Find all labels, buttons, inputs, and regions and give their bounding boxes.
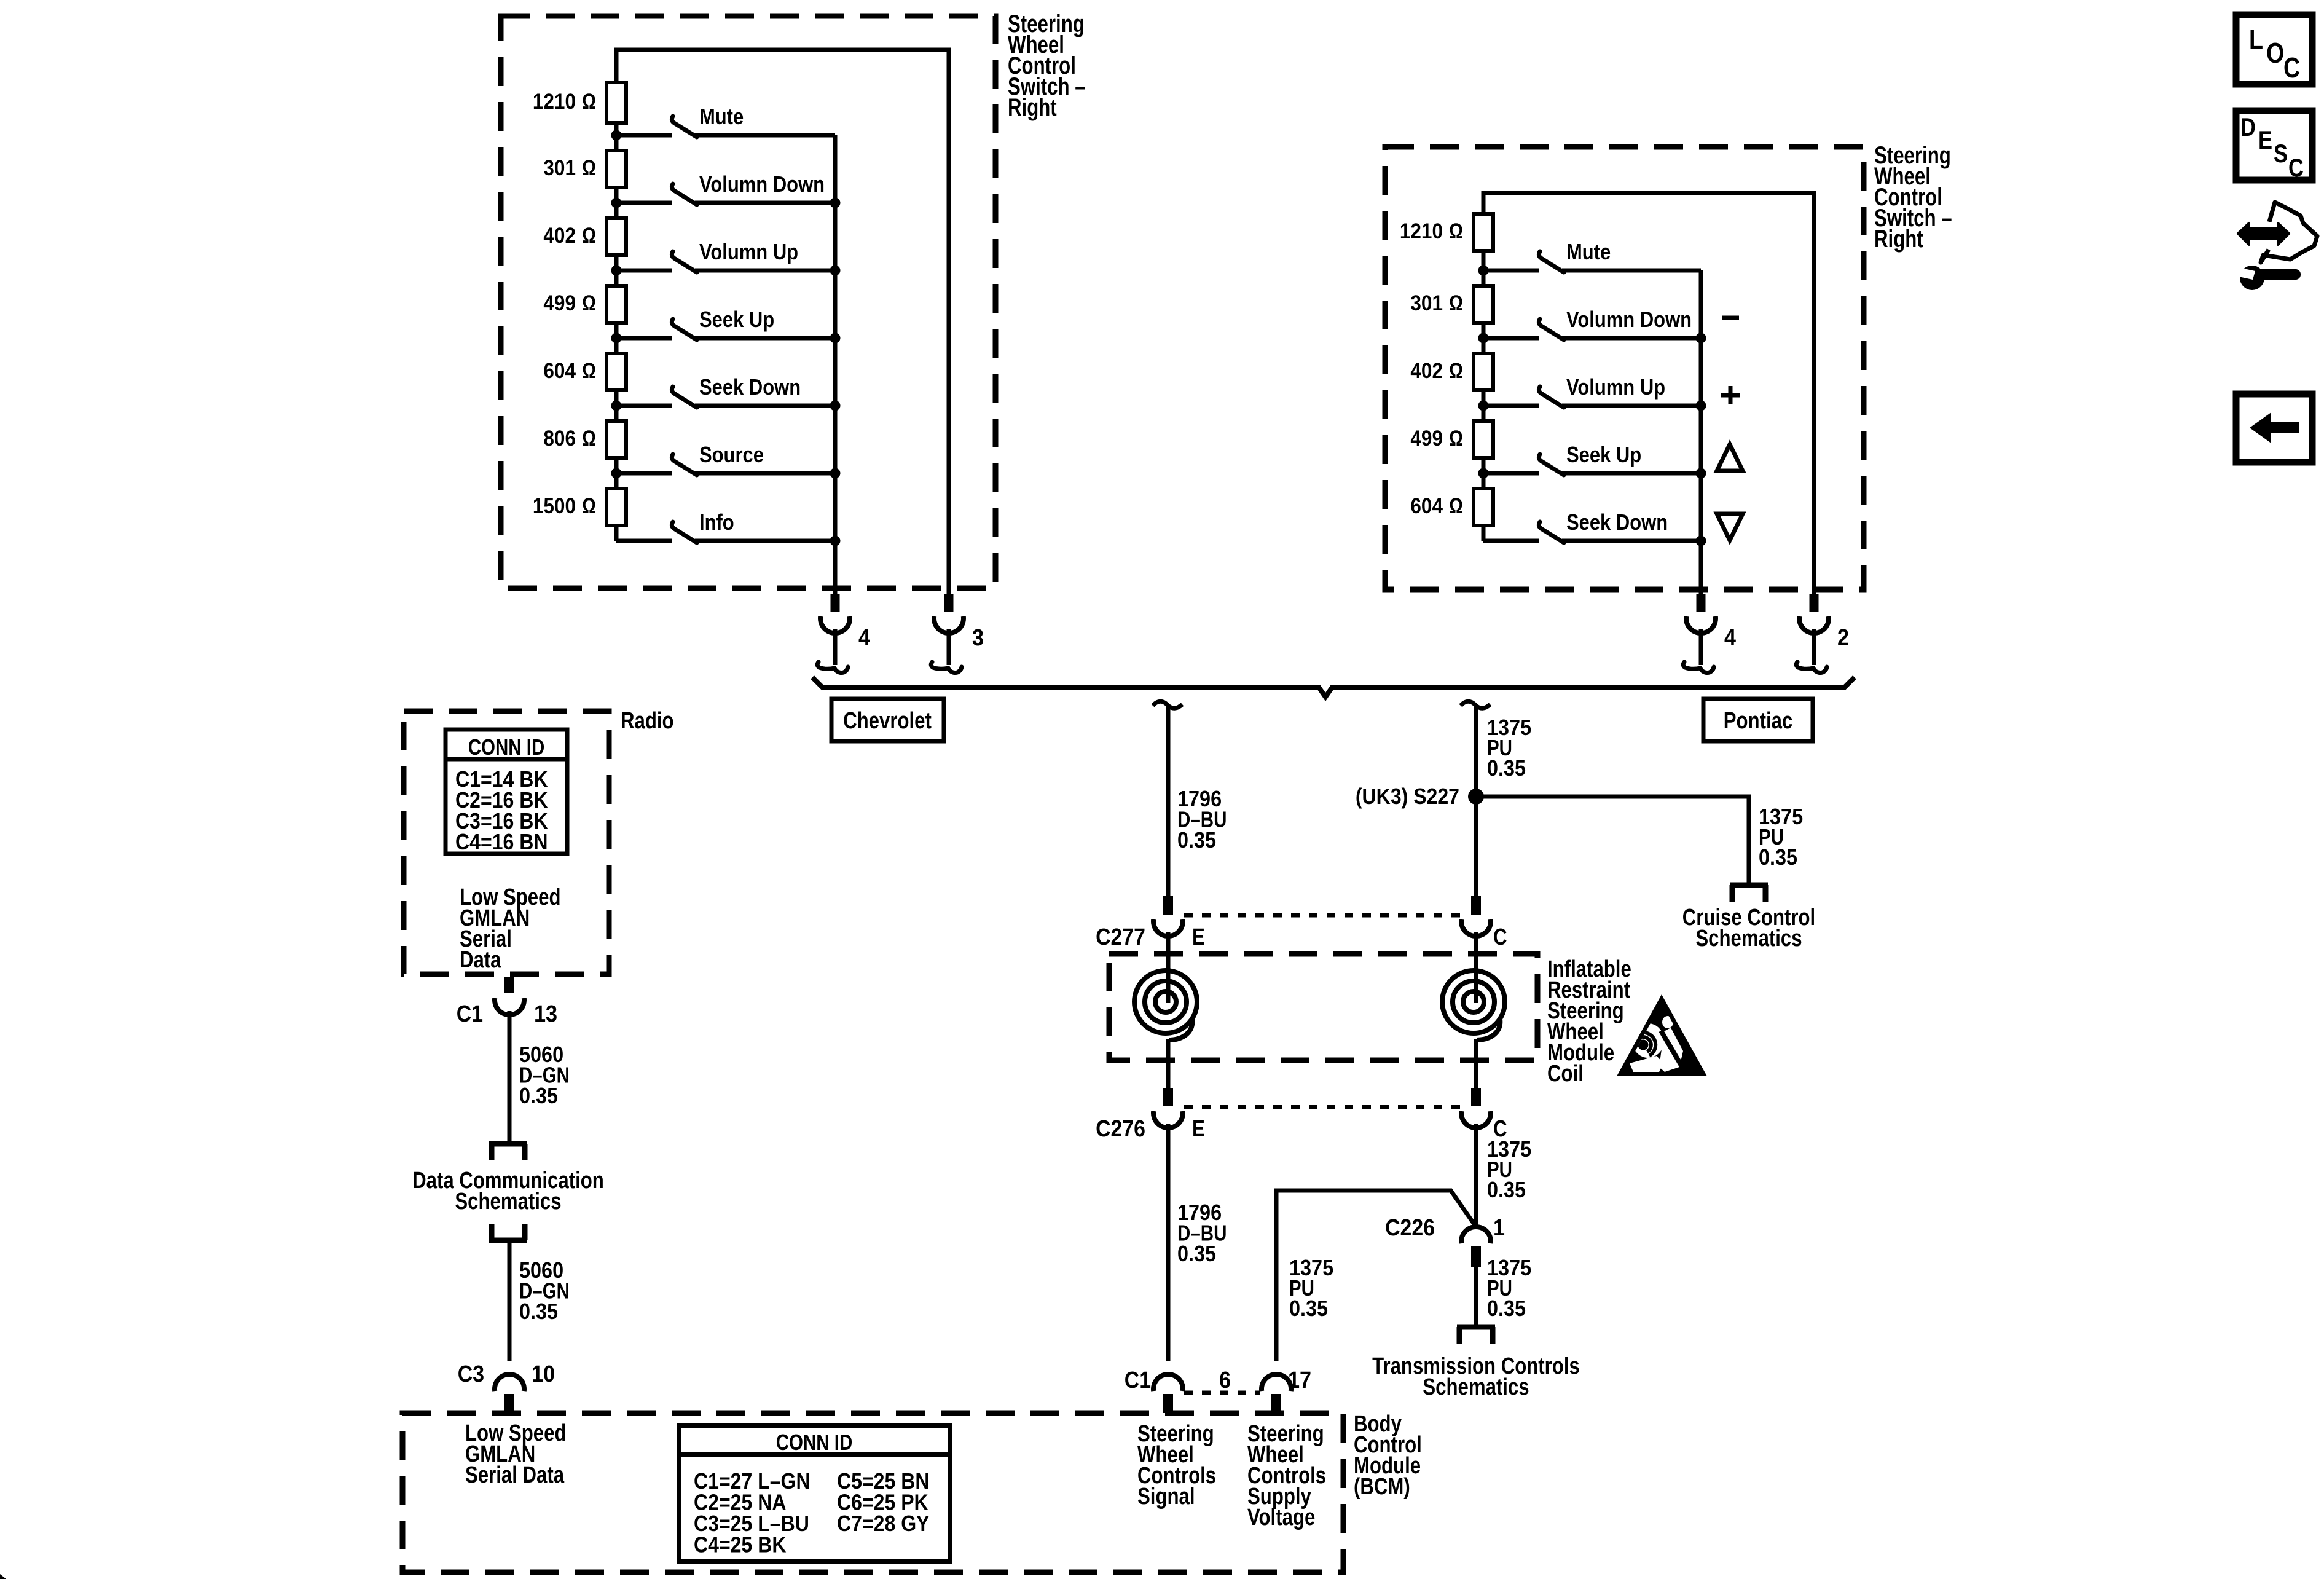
labels C277 E C xyxy=(1096,924,1507,950)
airbag warning triangle xyxy=(1617,994,1707,1076)
svg-text:0.35: 0.35 xyxy=(1289,1296,1328,1321)
svg-text:Volumn Down: Volumn Down xyxy=(699,171,825,197)
CONN ID table (Radio) xyxy=(446,730,567,854)
svg-text:E: E xyxy=(1192,924,1205,950)
svg-text:0.35: 0.35 xyxy=(1177,827,1216,853)
svg-text:Ω: Ω xyxy=(582,224,596,248)
svg-text:Volumn Up: Volumn Up xyxy=(1566,374,1665,400)
label: Low Speed GMLAN Serial Data (BCM) xyxy=(465,1420,567,1488)
svg-text:C4=25 BK: C4=25 BK xyxy=(694,1532,787,1557)
connector C277 dotted line xyxy=(1184,913,1460,918)
switch: Source (Chevrolet) xyxy=(616,442,835,475)
label 1375 PU 0.35 (cruise branch) xyxy=(1759,804,1803,870)
minus symbol (Volumn Down, Pontiac) xyxy=(1722,316,1739,320)
junction dots (Pontiac switch) xyxy=(1478,266,1706,546)
connector pin 2 (Pontiac switch) xyxy=(1796,540,1849,673)
label: Steering Wheel Controls Supply Voltage xyxy=(1247,1421,1326,1530)
svg-text:CONN ID: CONN ID xyxy=(776,1430,853,1455)
resistor 499 ohm (Pontiac switch) xyxy=(1410,421,1493,458)
label: Cruise Control Schematics xyxy=(1682,905,1815,951)
svg-text:C1: C1 xyxy=(1125,1368,1151,1393)
resistor 499 ohm (Chevrolet switch) xyxy=(543,286,626,323)
svg-text:Seek Down: Seek Down xyxy=(699,374,801,400)
svg-text:O: O xyxy=(2266,37,2284,69)
svg-text:0.35: 0.35 xyxy=(1177,1241,1216,1266)
svg-text:C7=28 GY: C7=28 GY xyxy=(837,1511,930,1536)
wire: S227 branch to cruise control xyxy=(1476,797,1749,883)
connector C1 pin 6 (BCM) xyxy=(1125,1368,1231,1413)
splice S227 xyxy=(1356,784,1484,809)
wire out of right coil xyxy=(1474,1039,1478,1088)
label 1375 PU 0.35 (supply wire) xyxy=(1289,1255,1333,1321)
wire 5060 D-GN 0.35 (upper) xyxy=(508,1011,512,1143)
svg-text:(BCM): (BCM) xyxy=(1354,1474,1410,1500)
svg-text:C276: C276 xyxy=(1096,1116,1145,1142)
switch: Info (Chevrolet) xyxy=(616,510,835,543)
svg-text:Right: Right xyxy=(1874,226,1923,253)
svg-text:Schematics: Schematics xyxy=(1695,926,1802,951)
svg-text:D: D xyxy=(2240,112,2256,141)
svg-text:0.35: 0.35 xyxy=(1487,1296,1526,1321)
Pontiac name box xyxy=(1703,699,1813,741)
bus tap (1796 wire) xyxy=(1153,701,1182,708)
svg-text:C: C xyxy=(1493,924,1507,950)
off-page bracket to data communication (upper) xyxy=(489,1144,527,1160)
double-arrow wrench icon xyxy=(2238,202,2317,290)
svg-text:Volumn Down: Volumn Down xyxy=(1566,307,1692,332)
svg-text:1210: 1210 xyxy=(533,90,576,114)
wire into right coil xyxy=(1474,932,1478,1003)
Pontiac steering wheel control switch dashed enclosure xyxy=(1385,147,1864,589)
connector C3 pin 10 (BCM) xyxy=(458,1361,555,1413)
svg-text:0.35: 0.35 xyxy=(1487,1177,1526,1202)
label 1375 PU 0.35 (C276 to C226) xyxy=(1487,1136,1531,1202)
svg-text:Mute: Mute xyxy=(699,104,744,129)
connector pin 17 (BCM) xyxy=(1262,1368,1311,1413)
svg-text:Ω: Ω xyxy=(1449,291,1463,315)
wire 1796 D-BU 0.35 (upper) xyxy=(1166,706,1171,896)
switch: Mute (Pontiac) xyxy=(1483,239,1701,272)
wire 1375 PU 0.35 (above S227) xyxy=(1474,706,1478,896)
svg-text:0.35: 0.35 xyxy=(519,1083,558,1108)
svg-text:S: S xyxy=(2274,139,2288,168)
resistor 604 ohm (Chevrolet switch) xyxy=(543,353,626,390)
label: Steering Wheel Controls Signal xyxy=(1137,1421,1216,1510)
svg-text:Ω: Ω xyxy=(582,494,596,518)
connector pin 3 (Chevrolet switch) xyxy=(931,539,984,673)
switch: Mute (Chevrolet) xyxy=(616,104,835,137)
wire: top bus of right switch box xyxy=(1483,193,1814,594)
svg-text:Ω: Ω xyxy=(582,359,596,383)
label 1796 D-BU 0.35 (upper) xyxy=(1177,786,1227,853)
svg-text:Data: Data xyxy=(460,947,501,973)
connector C277 terminal C xyxy=(1461,896,1491,936)
svg-text:0.35: 0.35 xyxy=(1759,845,1797,870)
switch: Volumn Down (Pontiac) xyxy=(1483,307,1701,340)
wire 1796 D-BU 0.35 (lower) xyxy=(1166,1124,1171,1361)
svg-text:Seek Up: Seek Up xyxy=(699,307,774,332)
svg-text:1210: 1210 xyxy=(1400,219,1443,243)
label 5060 D-GN 0.35 (lower) xyxy=(519,1258,570,1324)
svg-text:Ω: Ω xyxy=(582,291,596,315)
svg-text:L: L xyxy=(2249,23,2263,55)
svg-text:C226: C226 xyxy=(1385,1215,1435,1241)
Chevrolet steering wheel control switch dashed enclosure xyxy=(501,16,995,588)
svg-text:6: 6 xyxy=(1219,1368,1231,1393)
wire: top bus of left switch box xyxy=(616,50,949,594)
svg-text:C4=16 BN: C4=16 BN xyxy=(455,829,548,854)
svg-text:C1: C1 xyxy=(457,1001,483,1027)
svg-text:402: 402 xyxy=(543,224,576,248)
label: Transmission Controls Schematics xyxy=(1372,1353,1580,1400)
off-page bracket: transmission controls xyxy=(1457,1327,1495,1344)
wire into left coil xyxy=(1166,932,1171,1003)
connector C276 terminal C xyxy=(1461,1088,1491,1128)
svg-text:Volumn Up: Volumn Up xyxy=(699,239,798,264)
common bus underbrace xyxy=(812,677,1855,697)
svg-text:Source: Source xyxy=(699,442,764,467)
connector C1 pin 13 (Radio) xyxy=(457,977,557,1027)
svg-text:Voltage: Voltage xyxy=(1247,1505,1315,1530)
label: Data Communication Schematics xyxy=(412,1168,604,1215)
svg-text:402: 402 xyxy=(1410,359,1443,383)
coil spiral (right) xyxy=(1442,971,1505,1040)
wire: switch output bus (Pontiac) xyxy=(1699,270,1703,594)
svg-text:Coil: Coil xyxy=(1547,1061,1584,1087)
switch: Volumn Down (Chevrolet) xyxy=(616,171,835,205)
svg-text:0.35: 0.35 xyxy=(519,1299,558,1324)
svg-text:E: E xyxy=(1192,1116,1205,1142)
seek down triangle (Pontiac) xyxy=(1717,514,1743,540)
label: Body Control Module (BCM) xyxy=(1354,1411,1422,1500)
label 1796 D-BU 0.35 (lower) xyxy=(1177,1200,1227,1266)
page corner mark xyxy=(0,1574,6,1579)
off-page bracket from data communication (lower) xyxy=(489,1224,527,1240)
label 5060 D-GN 0.35 (upper) xyxy=(519,1042,570,1108)
label: Steering Wheel Control Switch - Right (left box) xyxy=(1008,10,1086,121)
label 1375 PU 0.35 (above S227) xyxy=(1487,715,1531,781)
switch: Volumn Up (Pontiac) xyxy=(1483,374,1701,408)
connector pin 4 (Pontiac switch) xyxy=(1683,540,1736,673)
connector C277 terminal E xyxy=(1153,896,1183,936)
connector C226 pin 1 xyxy=(1385,1215,1505,1267)
svg-text:2: 2 xyxy=(1837,625,1849,651)
svg-text:3: 3 xyxy=(972,625,984,651)
resistor 806 ohm (Chevrolet switch) xyxy=(543,421,626,458)
svg-text:CONN ID: CONN ID xyxy=(468,734,545,760)
svg-text:4: 4 xyxy=(858,625,870,651)
wire 5060 D-GN 0.35 (lower) xyxy=(508,1243,512,1361)
switch: Seek Down (Pontiac) xyxy=(1483,510,1701,543)
resistor 1210 ohm (Chevrolet switch) xyxy=(533,82,626,123)
svg-text:Ω: Ω xyxy=(1449,359,1463,383)
svg-text:C277: C277 xyxy=(1096,924,1145,950)
resistor 402 ohm (Pontiac switch) xyxy=(1410,353,1493,390)
svg-text:Ω: Ω xyxy=(1449,494,1463,518)
junction dots (Chevrolet switch) xyxy=(611,130,841,546)
resistor 604 ohm (Pontiac switch) xyxy=(1410,489,1493,526)
svg-text:Signal: Signal xyxy=(1137,1484,1195,1510)
svg-text:Schematics: Schematics xyxy=(1423,1374,1529,1400)
svg-text:Info: Info xyxy=(699,510,734,535)
seek up triangle (Pontiac) xyxy=(1717,444,1743,471)
wire out of left coil xyxy=(1166,1039,1171,1088)
svg-text:301: 301 xyxy=(1410,291,1443,315)
LOC icon box xyxy=(2236,15,2312,84)
inflatable restraint coil dashed enclosure xyxy=(1109,954,1537,1060)
svg-text:E: E xyxy=(2258,125,2272,154)
svg-text:Seek Up: Seek Up xyxy=(1566,442,1641,467)
resistor 1500 ohm (Chevrolet switch) xyxy=(533,489,626,526)
svg-text:Radio: Radio xyxy=(621,708,674,734)
resistor 402 ohm (Chevrolet switch) xyxy=(543,218,626,255)
bus tap (1375 wire) xyxy=(1461,701,1490,708)
resistor 301 ohm (Pontiac switch) xyxy=(1410,286,1493,323)
label: Steering Wheel Control Switch - Right (right box) xyxy=(1874,142,1952,253)
svg-text:Seek Down: Seek Down xyxy=(1566,510,1668,535)
svg-text:499: 499 xyxy=(543,291,576,315)
wire: right resistor chain bus xyxy=(1482,251,1486,286)
svg-text:C: C xyxy=(2288,153,2304,182)
resistor 1210 ohm (Pontiac switch) xyxy=(1400,214,1493,251)
svg-text:Serial Data: Serial Data xyxy=(465,1462,565,1488)
svg-text:Ω: Ω xyxy=(1449,219,1463,243)
off-page bracket: cruise control xyxy=(1730,885,1768,902)
svg-text:604: 604 xyxy=(543,359,576,383)
svg-text:4: 4 xyxy=(1724,625,1736,651)
switch: Volumn Up (Chevrolet) xyxy=(616,239,835,272)
svg-text:0.35: 0.35 xyxy=(1487,755,1526,781)
svg-text:13: 13 xyxy=(534,1001,557,1027)
coil spiral (left) xyxy=(1134,971,1197,1040)
connector C276 dotted line xyxy=(1184,1105,1460,1109)
svg-text:604: 604 xyxy=(1410,494,1443,518)
svg-text:C3: C3 xyxy=(458,1361,484,1387)
svg-text:(UK3) S227: (UK3) S227 xyxy=(1356,784,1459,809)
dotted line between BCM pins xyxy=(1184,1391,1260,1395)
svg-text:Mute: Mute xyxy=(1566,239,1611,264)
wire: BCM 17 supply to C226 xyxy=(1276,1191,1476,1361)
wire: left resistor chain bus xyxy=(614,123,619,151)
svg-text:1500: 1500 xyxy=(533,494,576,518)
svg-text:Ω: Ω xyxy=(582,90,596,114)
svg-text:17: 17 xyxy=(1288,1368,1311,1393)
svg-text:C: C xyxy=(2283,52,2300,84)
wire 1375 PU 0.35 (below C226) xyxy=(1474,1267,1478,1326)
plus symbol (Volumn Up, Pontiac) xyxy=(1721,386,1740,404)
DESC icon box xyxy=(2236,111,2312,182)
svg-text:301: 301 xyxy=(543,156,576,180)
Body Control Module dashed enclosure xyxy=(402,1413,1343,1572)
label: Low Speed GMLAN Serial Data (Radio) xyxy=(460,884,561,973)
svg-text:Schematics: Schematics xyxy=(455,1189,561,1215)
resistor 301 ohm (Chevrolet switch) xyxy=(543,151,626,187)
svg-text:1: 1 xyxy=(1493,1215,1505,1241)
label 1375 PU 0.35 (below C226) xyxy=(1487,1255,1531,1321)
switch: Seek Down (Chevrolet) xyxy=(616,374,835,408)
svg-text:Ω: Ω xyxy=(1449,427,1463,451)
wire 1375 PU 0.35 (C276 to C226) xyxy=(1474,1124,1478,1229)
connector pin 4 (Chevrolet switch) xyxy=(817,539,870,673)
svg-text:Ω: Ω xyxy=(582,427,596,451)
Chevrolet name box xyxy=(831,699,944,741)
svg-text:10: 10 xyxy=(532,1361,555,1387)
svg-text:Ω: Ω xyxy=(582,156,596,180)
svg-text:806: 806 xyxy=(543,427,576,451)
svg-text:499: 499 xyxy=(1410,427,1443,451)
labels C276 E C xyxy=(1096,1116,1507,1142)
back arrow icon box xyxy=(2236,394,2312,462)
label: Inflatable Restraint Steering Wheel Module Coil xyxy=(1547,956,1631,1087)
CONN ID table (BCM) xyxy=(679,1425,950,1561)
svg-text:Pontiac: Pontiac xyxy=(1724,708,1793,734)
connector C276 terminal E xyxy=(1153,1088,1183,1128)
switch: Seek Up (Pontiac) xyxy=(1483,442,1701,475)
switch: Seek Up (Chevrolet) xyxy=(616,307,835,340)
svg-text:Chevrolet: Chevrolet xyxy=(843,708,932,734)
wire: switch output bus (Chevrolet) xyxy=(833,135,838,594)
Radio dashed enclosure xyxy=(404,711,609,974)
svg-text:Right: Right xyxy=(1008,94,1057,121)
